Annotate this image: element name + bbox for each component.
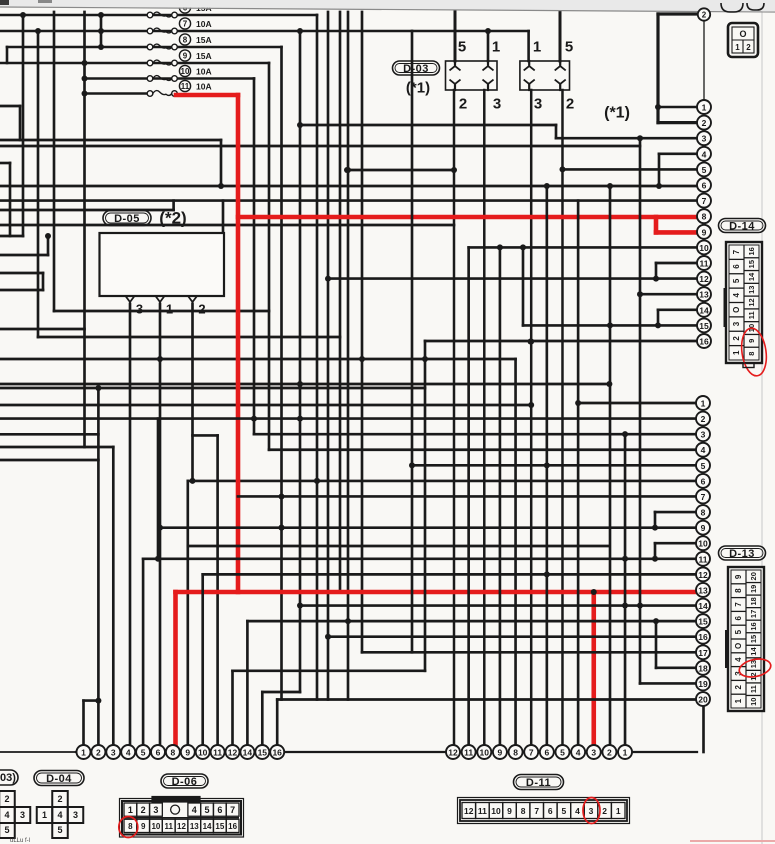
svg-text:5: 5 [702, 165, 707, 175]
svg-text:1: 1 [616, 806, 621, 816]
svg-text:3: 3 [534, 96, 542, 113]
wire top vertical x328 [327, 12, 330, 700]
wire horizontal y210 [0, 209, 174, 212]
svg-text:15: 15 [215, 822, 224, 831]
svg-text:4: 4 [126, 748, 131, 758]
wire D-13 pin19 feeder from x640 [640, 682, 696, 685]
svg-text:9: 9 [507, 806, 512, 816]
svg-text:10: 10 [491, 806, 501, 816]
wire D-11 pin1 riser from D-13 pin3 feeder [624, 434, 627, 745]
svg-text:2: 2 [57, 794, 62, 804]
svg-text:9: 9 [702, 227, 707, 237]
svg-text:15A: 15A [196, 51, 212, 61]
svg-text:20: 20 [749, 572, 758, 580]
svg-text:2: 2 [732, 336, 741, 341]
label D-01 cut ovals in band [721, 3, 743, 12]
svg-text:6: 6 [544, 748, 549, 758]
fuse F10 10A row [85, 77, 255, 80]
svg-text:8: 8 [171, 748, 176, 758]
svg-text:12: 12 [448, 748, 458, 758]
red wire y217 to D-14 pin8 [238, 215, 699, 220]
wire D-06 pin9 riser corner to D-13 pin6 feeder [186, 481, 189, 745]
svg-text:1: 1 [734, 698, 743, 703]
svg-text:4: 4 [57, 810, 62, 820]
wire top vertical x348 [347, 12, 350, 700]
svg-text:13: 13 [747, 286, 756, 294]
wire D-14 pin10 feeder to D-11 pin11 riser [469, 246, 697, 249]
svg-text:12: 12 [698, 570, 708, 580]
svg-text:3: 3 [732, 321, 741, 326]
svg-text:6: 6 [701, 476, 706, 486]
label D-11 [514, 775, 564, 790]
wire horizontal y200 to D-14 pin7 [0, 199, 697, 202]
svg-text:8: 8 [702, 212, 707, 222]
svg-text:(*2): (*2) [159, 209, 186, 228]
svg-text:2: 2 [4, 794, 9, 804]
svg-text:2: 2 [459, 96, 467, 113]
svg-text:2: 2 [96, 748, 101, 758]
wire D-11 pin4 riser [577, 201, 580, 745]
wire D-03 R pin3 down to D-11 pin7 [530, 90, 533, 745]
svg-text:7: 7 [732, 249, 741, 254]
wire stair x281 from F8 [280, 47, 283, 700]
connector D-03 right box [520, 61, 570, 90]
wire y434 into D-06 pin2 riser [0, 433, 98, 436]
connector D-01 pinout box [728, 23, 758, 57]
svg-text:03): 03) [0, 772, 16, 784]
svg-text:14: 14 [698, 601, 708, 611]
D-05 pin 2 [188, 296, 197, 302]
fuse F7 10A row [0, 30, 529, 33]
wire vertical bus x85 [83, 12, 86, 447]
red wire jog to D-14 pin9 [654, 217, 659, 232]
wire D-13 pin7 feeder [238, 495, 696, 498]
red wire y592 to D-13 pin13 [176, 590, 700, 595]
wire horizontal y388 [0, 387, 425, 390]
svg-text:3: 3 [702, 134, 707, 144]
svg-text:9: 9 [498, 748, 503, 758]
faint red mark bottom right [690, 840, 775, 842]
svg-text:15: 15 [698, 617, 708, 627]
svg-text:18: 18 [698, 663, 708, 673]
svg-text:15: 15 [699, 321, 709, 331]
svg-text:1: 1 [42, 810, 47, 820]
svg-text:10: 10 [198, 748, 208, 758]
label D-13 [719, 546, 766, 560]
fuse F11 10A row [85, 92, 153, 95]
svg-text:4: 4 [575, 806, 580, 816]
wire D-06 pin5 riser corner to D-13 pin11 feeder [142, 559, 145, 745]
wire vertical x101 [100, 15, 103, 47]
svg-text:5: 5 [734, 629, 743, 634]
connector D-03 left box [446, 61, 498, 90]
svg-text:5: 5 [205, 805, 210, 815]
svg-text:13: 13 [698, 585, 708, 595]
svg-text:2: 2 [198, 302, 205, 317]
connector D-03 pinout drawing cut at edge [0, 791, 15, 807]
svg-text:12: 12 [699, 274, 709, 284]
wire horizontal y460 [0, 459, 98, 462]
wire horizontal y125 into D-14 pin3 feeder [300, 124, 556, 127]
pins D-13 1-20 [696, 396, 710, 410]
wire D-03 pin stubs inside boxes [454, 61, 456, 65]
svg-text:1: 1 [533, 39, 541, 56]
wire horizontal y384 [0, 383, 609, 386]
wire D-03 left pin5 drop [454, 12, 457, 61]
wire D-13 pin2 feeder full [0, 417, 696, 420]
svg-text:4: 4 [732, 293, 741, 298]
wire top vertical x340 [339, 12, 342, 592]
svg-text:4: 4 [702, 149, 707, 159]
svg-text:10A: 10A [196, 67, 212, 77]
svg-text:3: 3 [111, 748, 116, 758]
label D-03 cut oval [0, 770, 18, 785]
wire thick from D-01 node 2 to D-14 pins 1-2 [658, 12, 697, 15]
wire horizontal y146 joins D-14 pin3 drop [0, 145, 640, 148]
D-05 pin 3 [126, 296, 135, 302]
svg-text:D-14: D-14 [729, 221, 755, 233]
red ellipse annotation on D-13 pinout [738, 656, 773, 679]
svg-text:16: 16 [272, 748, 282, 758]
svg-text:6: 6 [548, 806, 553, 816]
wire D-13 pin5 feeder from x412 [412, 464, 696, 467]
svg-text:12: 12 [177, 822, 186, 831]
svg-text:9: 9 [183, 52, 188, 61]
svg-text:13: 13 [699, 290, 709, 300]
svg-text:5: 5 [458, 39, 466, 56]
svg-text:6: 6 [732, 264, 741, 269]
red ellipse annotation on D-11 pin3 [583, 798, 600, 824]
svg-text:10: 10 [699, 243, 709, 253]
svg-text:8: 8 [513, 748, 518, 758]
pins D-14 1-16 [697, 100, 711, 114]
svg-text:16: 16 [749, 622, 758, 630]
wire D-13 pin17 feeder [362, 651, 696, 654]
svg-text:9: 9 [747, 339, 756, 343]
wire D-14 pin3 feeder long vertical x640 to D-13 pin19 [556, 137, 697, 140]
svg-text:11: 11 [699, 554, 708, 564]
svg-text:O: O [739, 29, 746, 39]
svg-text:11: 11 [213, 748, 222, 758]
svg-text:uLLu f-l: uLLu f-l [10, 838, 30, 844]
wire horizontal y140 [0, 139, 221, 142]
wire horizontal y186 to D-14 pin6 [0, 185, 697, 188]
right scan edge [761, 12, 763, 844]
svg-text:4: 4 [701, 445, 706, 455]
wire horizontal y236 [0, 235, 23, 238]
fuse F6 15A row [0, 14, 317, 17]
svg-text:17: 17 [698, 648, 708, 658]
svg-text:1: 1 [732, 350, 741, 355]
wire D-13 pin18 feeder from x656 bracket [656, 667, 696, 670]
wire vertical bus x38 [37, 31, 40, 337]
svg-text:1: 1 [81, 748, 86, 758]
wire bottom bus [0, 751, 76, 753]
wire horizontal y329 [0, 328, 85, 331]
wire D-11 pin9 riser [499, 247, 502, 745]
svg-text:8: 8 [734, 588, 743, 593]
svg-text:(*1): (*1) [406, 80, 430, 97]
red ellipse annotation on D-14 pinout [739, 327, 769, 378]
svg-text:O: O [732, 307, 741, 313]
wire left bracket x10 [9, 163, 12, 236]
wire stair x254 from F10 to D-13 pin3 feeder [253, 79, 256, 435]
svg-text:2: 2 [701, 414, 706, 424]
wire D-13 pin14 feeder from x300 spine [300, 604, 696, 607]
component D-05 box [100, 233, 225, 296]
wire D-05 pin3 drop to D-06 pin4 [129, 304, 132, 745]
svg-text:11: 11 [749, 685, 758, 693]
top gray scan band [0, 0, 775, 12]
svg-text:7: 7 [734, 602, 743, 607]
svg-text:14: 14 [203, 822, 212, 831]
label D-06 [161, 774, 208, 788]
svg-text:14: 14 [747, 272, 756, 281]
wire left y255 [0, 254, 48, 257]
svg-text:1: 1 [128, 805, 133, 815]
svg-text:14: 14 [699, 305, 709, 315]
svg-text:2: 2 [734, 685, 743, 690]
wire D-13 pin1 feeder [578, 402, 696, 405]
svg-text:11: 11 [181, 82, 190, 91]
svg-text:1: 1 [701, 399, 706, 409]
pins D-06 [77, 745, 91, 759]
svg-text:5: 5 [4, 825, 9, 835]
svg-text:2: 2 [602, 806, 607, 816]
svg-text:20: 20 [698, 695, 708, 705]
svg-text:12: 12 [747, 298, 756, 306]
label D-04 [34, 771, 84, 786]
scan blob top left [0, 0, 9, 5]
svg-text:15: 15 [747, 260, 756, 268]
wire D-03 left pin1 to F7 bus [487, 31, 490, 61]
wire stair x269 from F9 to D-13 pin4 feeder [268, 63, 271, 450]
svg-text:D-03: D-03 [403, 63, 429, 75]
label D-03 [393, 61, 440, 75]
wire F7 corner into D-03 right pin1 [527, 31, 530, 61]
svg-text:3: 3 [493, 96, 501, 113]
wire D-06 pin2 riser [97, 388, 100, 745]
wire D-13 pin15 feeder from D-06 pin14 riser [247, 620, 696, 623]
svg-text:8: 8 [128, 822, 133, 831]
wire D-13 pin12 feeder from D-06 pin10 riser [203, 573, 696, 576]
svg-text:13: 13 [190, 822, 199, 831]
svg-text:10: 10 [151, 822, 160, 831]
svg-text:15: 15 [258, 748, 268, 758]
svg-text:2: 2 [141, 805, 146, 815]
svg-text:7: 7 [183, 20, 188, 29]
svg-text:6: 6 [734, 616, 743, 621]
wire D-06 pin16 riser [276, 700, 279, 746]
svg-text:9: 9 [734, 574, 743, 579]
svg-text:16: 16 [698, 632, 708, 642]
svg-text:11: 11 [464, 748, 473, 758]
label D-14 [719, 219, 766, 233]
fuse F8 15A row [7, 46, 282, 49]
svg-text:15A: 15A [196, 35, 212, 45]
wire D-14 pin5 feeder [562, 168, 697, 171]
svg-text:9: 9 [701, 523, 706, 533]
svg-text:5: 5 [562, 806, 567, 816]
svg-text:1: 1 [623, 748, 628, 758]
svg-text:10: 10 [181, 67, 190, 76]
svg-text:7: 7 [702, 196, 707, 206]
wire vertical bus x54 [53, 12, 56, 311]
svg-text:17: 17 [749, 610, 758, 618]
wire horizontal y225 [0, 224, 454, 227]
wire D-14 pin15 feeder from x523 bracket [523, 324, 697, 327]
node circled 2 top [698, 8, 710, 20]
svg-text:3: 3 [591, 748, 596, 758]
svg-text:10: 10 [749, 698, 758, 706]
svg-text:7: 7 [529, 748, 534, 758]
red wire vertical x238 [236, 95, 241, 592]
svg-text:5: 5 [732, 278, 741, 283]
wire stub into D-05 box top [222, 201, 225, 233]
svg-text:16: 16 [747, 247, 756, 255]
svg-text:19: 19 [749, 585, 758, 593]
svg-text:1: 1 [492, 39, 500, 56]
svg-text:7: 7 [534, 806, 539, 816]
wire D-03 right pin5 drop [559, 12, 562, 61]
svg-text:8: 8 [183, 36, 188, 45]
svg-text:5: 5 [57, 825, 62, 835]
svg-text:11: 11 [747, 311, 756, 319]
wire D-14 pin16 feeder to D-06 pin12 riser [425, 340, 697, 343]
svg-text:14: 14 [243, 748, 253, 758]
svg-text:4: 4 [192, 805, 197, 815]
wire D-13 pin16 feeder from x328 spine [328, 635, 696, 638]
D-14 pinout left notch [723, 288, 726, 327]
svg-text:7: 7 [701, 492, 706, 502]
svg-text:4: 4 [4, 810, 9, 820]
svg-text:2: 2 [702, 11, 707, 20]
svg-text:4: 4 [734, 657, 743, 662]
svg-text:(*1): (*1) [604, 105, 630, 122]
D-05 pin 1 [156, 296, 165, 302]
svg-text:5: 5 [560, 748, 565, 758]
red circle annotation on D-06 pin8 [119, 817, 138, 838]
svg-text:9: 9 [141, 822, 146, 831]
svg-text:1: 1 [166, 302, 173, 317]
wire D-06 pin1 riser elbow to pin2 riser [82, 701, 85, 745]
svg-text:14: 14 [749, 647, 758, 656]
svg-text:11: 11 [164, 822, 173, 831]
connector D-06 pinout drawing [120, 799, 244, 838]
D-13 pinout left notch [725, 630, 728, 668]
svg-text:16: 16 [699, 337, 709, 347]
wire D-13 pin20 feeder from D-06 pin16 riser [277, 698, 696, 701]
svg-text:11: 11 [478, 806, 487, 816]
fuse labels [179, 2, 190, 13]
D-14 pinout bottom tab [743, 363, 754, 368]
svg-text:5: 5 [565, 39, 573, 56]
svg-text:3: 3 [73, 810, 78, 820]
svg-text:12: 12 [228, 748, 238, 758]
svg-text:15: 15 [749, 635, 758, 643]
wire long vertical x412 from F7 bus to D-13 pin17 feeder [411, 31, 414, 652]
svg-text:18: 18 [749, 597, 758, 605]
svg-text:5: 5 [701, 461, 706, 471]
wire D-13 pin3 feeder [254, 433, 696, 436]
svg-text:10: 10 [698, 539, 708, 549]
svg-text:16: 16 [228, 822, 237, 831]
wire stair x317 from F6 [316, 15, 319, 700]
svg-text:D-06: D-06 [172, 776, 198, 788]
wire D-14 pin13 feeder [640, 293, 697, 296]
fuse F9 15A row [0, 62, 269, 65]
connector D-14 pinout drawing [726, 242, 762, 363]
svg-text:1: 1 [735, 43, 740, 52]
wire horizontal y359 to D-11 pin8 riser [0, 358, 516, 361]
left bracket wire between F8 F9 [6, 47, 9, 63]
svg-text:3: 3 [589, 806, 594, 816]
wire D-05 pin1 drop to D-06 pin6 [159, 304, 162, 745]
wire horizontal y546 [188, 545, 610, 548]
svg-text:3: 3 [701, 430, 706, 440]
svg-text:7: 7 [230, 805, 235, 815]
svg-text:12: 12 [464, 806, 474, 816]
connector D-04 pinout drawing [52, 791, 68, 807]
wire D-13 pin9 feeder [160, 526, 696, 529]
svg-text:2: 2 [746, 43, 751, 52]
wire horizontal y170 segment [347, 169, 454, 172]
svg-text:4: 4 [576, 748, 581, 758]
wire y447 to D-06 pin3 riser [0, 446, 113, 449]
svg-text:8: 8 [747, 352, 756, 356]
svg-text:3: 3 [136, 302, 143, 317]
svg-text:2: 2 [607, 748, 612, 758]
wire D-14 pin11 feeder [656, 262, 697, 265]
svg-text:10A: 10A [196, 19, 212, 29]
wire D-14 pin12 feeder from x328 spine [328, 277, 697, 280]
svg-text:3: 3 [153, 805, 158, 815]
wire y419 long to D-13 pin2 [157, 419, 160, 559]
connector D-11 pinout drawing [458, 798, 630, 824]
connector D-13 pinout drawing [728, 567, 764, 711]
svg-text:D-11: D-11 [526, 777, 551, 789]
svg-text:10: 10 [480, 748, 490, 758]
wire D-03 L pin3 down to D-11 pin10 [483, 90, 486, 745]
svg-text:11: 11 [700, 259, 709, 269]
wire D-13 pin4 feeder [269, 448, 696, 451]
wire top vertical x362 to D-13 pin17 feeder [361, 12, 364, 652]
svg-text:6: 6 [702, 181, 707, 191]
wire D-05 pin2 drop ends on D-13 pin6 feeder [191, 304, 194, 481]
red wire drop to D-06 pin8 [173, 592, 178, 745]
wire D-13 pin11 feeder [143, 557, 696, 560]
wire D-14 pin4 feeder [659, 152, 697, 155]
red wire from fuse F11 right to x238 [176, 93, 238, 98]
wire D-14 pin6 riser down to D-11 pin2 [609, 186, 612, 745]
svg-text:8: 8 [701, 508, 706, 518]
svg-text:10A: 10A [196, 82, 212, 92]
svg-text:2: 2 [566, 96, 574, 113]
svg-text:9: 9 [185, 748, 190, 758]
svg-text:5: 5 [141, 748, 146, 758]
svg-text:D-04: D-04 [46, 773, 72, 785]
wire D-03 R pin2 down to D-11 pin5 [561, 90, 564, 745]
wire D-13 pin20 to D-11 pin1 [702, 707, 705, 752]
svg-text:6: 6 [156, 748, 161, 758]
wire D-14 pin14 feeder [658, 308, 697, 311]
svg-text:O: O [734, 643, 743, 649]
wire vertical bus x23 [22, 15, 25, 236]
wire D-03 L pin2 down to D-11 pin12 [453, 90, 456, 745]
svg-text:19: 19 [698, 679, 708, 689]
red wire drop to D-11 pin3 [591, 592, 596, 745]
svg-text:1: 1 [702, 103, 707, 113]
